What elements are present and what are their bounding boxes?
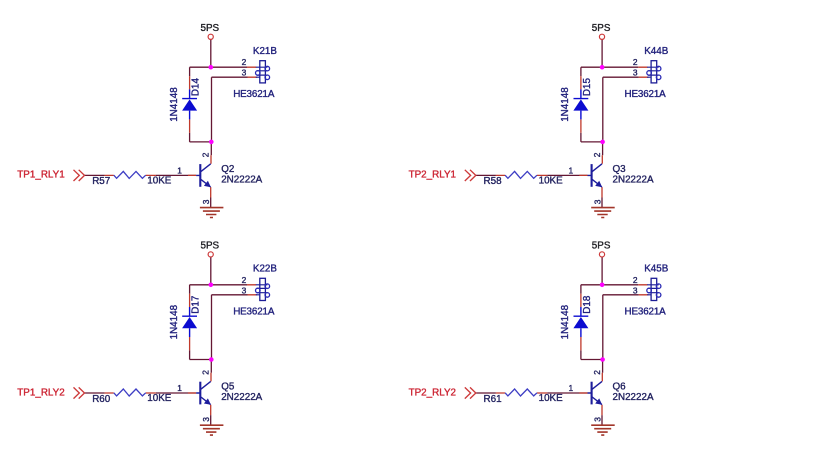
svg-text:1N4148: 1N4148 — [169, 304, 180, 339]
svg-text:R57: R57 — [92, 176, 110, 187]
svg-text:TP2_RLY2: TP2_RLY2 — [409, 387, 456, 398]
svg-text:3: 3 — [593, 199, 603, 204]
svg-text:1N4148: 1N4148 — [169, 87, 180, 122]
svg-text:2N2222A: 2N2222A — [221, 392, 262, 403]
svg-text:3: 3 — [242, 68, 247, 78]
svg-text:5PS: 5PS — [592, 23, 611, 34]
svg-text:1: 1 — [569, 166, 574, 176]
svg-text:3: 3 — [633, 285, 638, 295]
svg-text:2: 2 — [242, 275, 247, 285]
svg-text:2: 2 — [201, 370, 211, 375]
svg-text:5PS: 5PS — [200, 23, 219, 34]
svg-text:2N2222A: 2N2222A — [613, 392, 654, 403]
svg-text:2N2222A: 2N2222A — [613, 174, 654, 185]
svg-text:D15: D15 — [582, 78, 593, 97]
svg-text:D18: D18 — [582, 295, 593, 314]
svg-text:3: 3 — [242, 285, 247, 295]
svg-text:5PS: 5PS — [592, 241, 611, 252]
svg-text:R60: R60 — [92, 394, 111, 405]
svg-text:3: 3 — [593, 417, 603, 422]
svg-text:TP1_RLY2: TP1_RLY2 — [17, 387, 64, 398]
svg-text:1: 1 — [177, 383, 182, 393]
svg-text:2: 2 — [633, 57, 638, 67]
svg-text:TP1_RLY1: TP1_RLY1 — [17, 170, 64, 181]
svg-text:2: 2 — [592, 370, 602, 375]
svg-text:2: 2 — [201, 152, 211, 157]
svg-text:R58: R58 — [484, 176, 503, 187]
svg-text:3: 3 — [633, 68, 638, 78]
svg-text:2: 2 — [592, 152, 602, 157]
svg-text:1: 1 — [177, 166, 182, 176]
svg-text:1N4148: 1N4148 — [560, 304, 571, 339]
svg-text:3: 3 — [201, 417, 211, 422]
svg-text:2N2222A: 2N2222A — [221, 174, 262, 185]
svg-text:2: 2 — [242, 57, 247, 67]
svg-text:R61: R61 — [484, 394, 502, 405]
svg-text:HE3621A: HE3621A — [233, 89, 275, 100]
svg-text:HE3621A: HE3621A — [233, 306, 275, 317]
svg-text:K44B: K44B — [644, 46, 669, 57]
svg-text:K22B: K22B — [253, 263, 278, 274]
svg-text:10KE: 10KE — [539, 176, 564, 187]
svg-text:1: 1 — [569, 383, 574, 393]
svg-text:K45B: K45B — [644, 263, 669, 274]
svg-text:3: 3 — [201, 199, 211, 204]
svg-text:10KE: 10KE — [147, 393, 172, 404]
svg-text:D17: D17 — [191, 296, 202, 314]
svg-text:TP2_RLY1: TP2_RLY1 — [409, 170, 456, 181]
svg-text:K21B: K21B — [253, 46, 278, 57]
svg-text:1N4148: 1N4148 — [560, 87, 571, 122]
svg-text:HE3621A: HE3621A — [625, 306, 667, 317]
svg-text:5PS: 5PS — [200, 241, 219, 252]
svg-text:10KE: 10KE — [539, 393, 564, 404]
svg-text:10KE: 10KE — [147, 176, 172, 187]
svg-text:HE3621A: HE3621A — [625, 89, 667, 100]
svg-text:2: 2 — [633, 275, 638, 285]
svg-text:D14: D14 — [191, 78, 202, 97]
